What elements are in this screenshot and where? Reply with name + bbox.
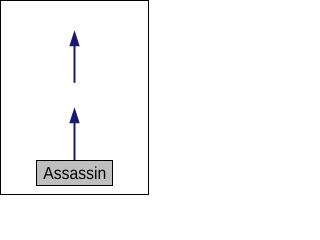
svg-text:Assassin: Assassin bbox=[43, 163, 106, 183]
class box Assassin bbox=[37, 161, 113, 186]
inheritance arrow upper (to hidden base class) bbox=[70, 31, 80, 83]
inheritance arrow lower (from Assassin to hidden base class) bbox=[70, 108, 80, 160]
